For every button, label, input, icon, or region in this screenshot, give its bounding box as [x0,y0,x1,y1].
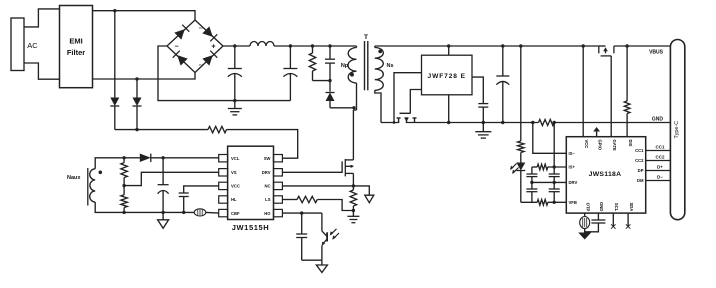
svg-text:NC: NC [264,184,270,189]
svg-text:IS+: IS+ [569,165,576,170]
svg-text:VS: VS [231,170,237,175]
svg-text:VCL: VCL [231,156,240,161]
svg-text:DIS: DIS [628,140,633,147]
svg-text:Filter: Filter [67,48,85,57]
svg-text:OTP: OTP [585,203,590,212]
svg-text:DP: DP [638,168,644,173]
svg-text:LS: LS [265,197,271,202]
svg-text:−: − [174,44,178,51]
svg-text:DM: DM [637,178,644,183]
svg-text:VFB: VFB [569,200,577,205]
svg-text:DRV: DRV [262,170,271,175]
svg-text:ru: ru [199,26,202,30]
svg-text:ru: ru [199,63,202,67]
svg-text:T: T [364,34,368,41]
svg-text:IS−: IS− [569,151,576,156]
svg-text:Np: Np [341,63,349,69]
svg-text:GATE: GATE [612,140,617,152]
svg-text:VCC: VCC [231,184,240,189]
svg-text:VCC: VCC [584,140,589,149]
svg-text:CC2: CC2 [655,155,664,160]
svg-text:JW1515H: JW1515H [232,223,270,232]
svg-text:D−: D− [657,175,663,180]
svg-text:EMI: EMI [69,37,82,46]
svg-text:Naux: Naux [67,175,81,181]
svg-text:GPIO: GPIO [597,140,602,151]
svg-text:SDA: SDA [629,202,634,211]
svg-text:Ns: Ns [386,63,393,69]
svg-text:SCL: SCL [614,203,619,212]
svg-text:CBF: CBF [231,211,240,216]
svg-text:CC2: CC2 [635,158,644,163]
svg-text:AC: AC [27,41,38,50]
svg-text:HL: HL [231,197,237,202]
svg-text:CC1: CC1 [635,148,644,153]
svg-text:JWF728 E: JWF728 E [428,73,466,80]
svg-text:VBUS: VBUS [649,50,664,56]
svg-text:DRV: DRV [569,180,578,185]
svg-text:HO: HO [264,211,271,216]
svg-text:D+: D+ [657,165,663,170]
svg-text:GND: GND [599,202,604,211]
svg-text:SW: SW [264,156,271,161]
svg-text:JWS118A: JWS118A [589,171,622,178]
svg-text:CC1: CC1 [655,145,664,150]
svg-text:Type-C: Type-C [674,121,680,139]
svg-text:+: + [211,44,215,51]
svg-text:GND: GND [652,117,664,123]
